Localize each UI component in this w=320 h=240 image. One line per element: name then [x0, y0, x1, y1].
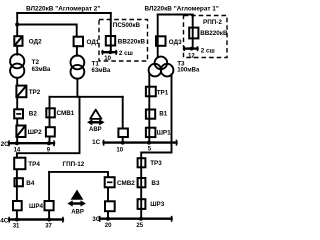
svg-text:СМВ2: СМВ2	[117, 180, 135, 187]
svg-text:3С: 3С	[92, 216, 101, 223]
svg-text:РПП-2: РПП-2	[203, 19, 222, 26]
disconnector ШР4 (left)	[13, 201, 22, 210]
bus 2С	[9, 142, 54, 144]
sectional breaker СМВ2	[105, 177, 115, 187]
tick: bus 4С ends	[9, 217, 63, 223]
wire: ОД1 to Т1	[76, 46, 78, 56]
sectional breaker СМВ1	[46, 108, 55, 117]
svg-text:ВЛ220кВ "Агломерат 2": ВЛ220кВ "Агломерат 2"	[26, 5, 100, 12]
wire: ШР4 right branch to bus 4С	[48, 172, 50, 220]
svg-text:2 сш: 2 сш	[119, 50, 133, 57]
dashed enclosure РПП-2	[184, 16, 228, 58]
node 10 dot	[121, 141, 125, 145]
svg-text:В1: В1	[159, 110, 168, 117]
svg-text:10: 10	[116, 147, 123, 153]
wire: middle drop, jog to ТР4 column	[17, 97, 80, 158]
svg-text:ПС500кВ: ПС500кВ	[113, 22, 141, 29]
svg-text:63мВа: 63мВа	[92, 68, 111, 74]
svg-text:2 сш: 2 сш	[201, 47, 215, 54]
breaker В3	[138, 178, 146, 187]
bus 1С	[104, 141, 177, 143]
transformer Т3	[155, 57, 168, 70]
wire: drop to ОД3 / Т3	[157, 15, 159, 58]
wire: drop to ВВ220кВ (ПС500кВ)	[110, 13, 112, 52]
svg-text:ШР1: ШР1	[157, 130, 172, 137]
breaker В2	[14, 109, 23, 118]
node 12 dot (2 сш РПП-2)	[190, 47, 194, 51]
svg-text:ТР2: ТР2	[29, 89, 41, 96]
box under СМВ2	[105, 201, 115, 211]
svg-text:АВР: АВР	[89, 127, 102, 133]
breaker ВВ220кВ (ПС500кВ)	[106, 36, 115, 46]
node 31 dot	[15, 218, 19, 222]
svg-text:В4: В4	[26, 180, 35, 187]
wire: ВЛ220кВ Агломерат 1 feeder line	[158, 14, 193, 16]
svg-text:100мВа: 100мВа	[177, 67, 200, 73]
breaker В1	[146, 110, 155, 119]
disconnector ОД2	[14, 36, 22, 46]
tick: bus 2С ends	[9, 140, 54, 146]
tick: 2 сш ends (РПП-2)	[184, 46, 197, 51]
wire: Т3 right winding jog down to ТР3 column	[141, 75, 171, 219]
wire: Т3 left winding down to node 5	[148, 74, 150, 143]
wire: right drop to node 10	[122, 97, 124, 143]
box above node 10	[118, 129, 128, 138]
svg-text:ГПП-12: ГПП-12	[63, 161, 85, 168]
wire: junction horizontal under Т1	[50, 96, 123, 98]
wire: В2 to bus 2С	[16, 118, 18, 143]
svg-text:ОД3: ОД3	[169, 39, 182, 46]
node 10 dot (2 сш ПС500кВ)	[109, 50, 113, 54]
disconnector ШР2	[16, 126, 25, 138]
transformer T2	[10, 54, 24, 68]
svg-text:12: 12	[188, 53, 195, 59]
svg-text:ТР4: ТР4	[28, 161, 40, 168]
svg-text:25: 25	[136, 223, 143, 228]
bus 2 сш (РПП-2)	[184, 47, 197, 49]
svg-text:ВВ220кВ: ВВ220кВ	[118, 39, 146, 46]
svg-text:ТР3: ТР3	[150, 160, 162, 167]
dashed enclosure ПС500кВ	[99, 20, 148, 62]
node 14 dot	[15, 141, 19, 145]
svg-text:ОД2: ОД2	[29, 39, 42, 46]
breaker ВВ220кВ (РПП-2)	[189, 28, 198, 39]
node 5 dot	[147, 141, 151, 145]
tick: bus 1С ends	[104, 140, 177, 146]
node 25 dot	[139, 217, 143, 221]
wire: Т1 to junction	[76, 79, 78, 97]
svg-text:1С: 1С	[92, 139, 101, 146]
node 37 dot	[47, 218, 51, 222]
breaker В4	[15, 178, 23, 186]
svg-text:Т3: Т3	[177, 60, 185, 67]
svg-text:ОД1: ОД1	[87, 39, 100, 46]
bus 3С	[100, 217, 172, 219]
svg-text:4С: 4С	[0, 217, 9, 224]
disconnector ШР1	[146, 128, 156, 137]
svg-text:В2: В2	[29, 111, 38, 118]
node: junction dot T2/T1 branch	[15, 23, 19, 27]
tap changer ТР3	[138, 158, 146, 167]
tap changer ТР1	[146, 87, 156, 97]
АВР symbol 2 (filled triangle + double arrow)	[67, 190, 86, 207]
svg-text:АВР: АВР	[71, 209, 84, 215]
bus 2 сш (ПС500кВ)	[103, 51, 117, 53]
disconnector ОД3	[156, 36, 166, 46]
wire: drop to ОД2 column	[16, 13, 18, 36]
tick: 2 сш ends (ПС500кВ)	[103, 50, 117, 55]
wire: branch at y=24.5 to ОД1	[17, 25, 76, 37]
svg-text:ТР1: ТР1	[157, 89, 169, 96]
svg-text:ШР2: ШР2	[28, 129, 43, 136]
wire: T2 column to В2	[16, 78, 18, 110]
svg-text:37: 37	[45, 223, 52, 228]
svg-text:СМВ1: СМВ1	[57, 110, 75, 117]
disconnector ОД1	[74, 37, 83, 47]
АВР symbol 1 (triangle + double arrow)	[87, 110, 105, 126]
svg-text:Т2: Т2	[32, 59, 40, 66]
svg-text:2С: 2С	[1, 141, 10, 148]
wire: ВЛ220кВ Агломерат 2 feeder line	[17, 12, 111, 14]
svg-text:31: 31	[13, 223, 20, 228]
tick: bus 3С ends	[100, 216, 172, 222]
node 20 dot	[106, 217, 110, 221]
svg-text:В3: В3	[151, 180, 160, 187]
svg-text:ШР4: ШР4	[29, 203, 44, 210]
bus 4С	[9, 218, 63, 220]
disconnector ШР4 (right)	[45, 201, 54, 210]
svg-text:Т1: Т1	[92, 60, 100, 67]
wire: drop to ВВ220кВ (РПП-2)	[192, 15, 194, 49]
wire: left drop to СМВ1 and node 9	[49, 97, 51, 143]
transformer Т1	[71, 56, 85, 70]
node 9 dot	[47, 141, 51, 145]
tap changer ТР2	[16, 86, 26, 98]
wire: T2 column upper	[16, 46, 18, 55]
wire: ГПП-12 tie line	[49, 172, 108, 219]
svg-text:20: 20	[105, 223, 112, 228]
svg-text:ВЛ220кВ "Агломерат 1": ВЛ220кВ "Агломерат 1"	[145, 5, 219, 12]
wire: ТР4 column down to bus 4С	[16, 169, 18, 219]
svg-text:10: 10	[104, 56, 111, 62]
tap changer ТР4	[14, 158, 25, 170]
disconnector ШР3	[138, 199, 146, 209]
svg-text:63мВа: 63мВа	[32, 67, 51, 73]
svg-text:ВВ220кВ: ВВ220кВ	[200, 30, 228, 37]
box under СМВ1	[46, 127, 55, 136]
svg-text:14: 14	[14, 147, 21, 153]
svg-text:ШР3: ШР3	[150, 201, 165, 208]
